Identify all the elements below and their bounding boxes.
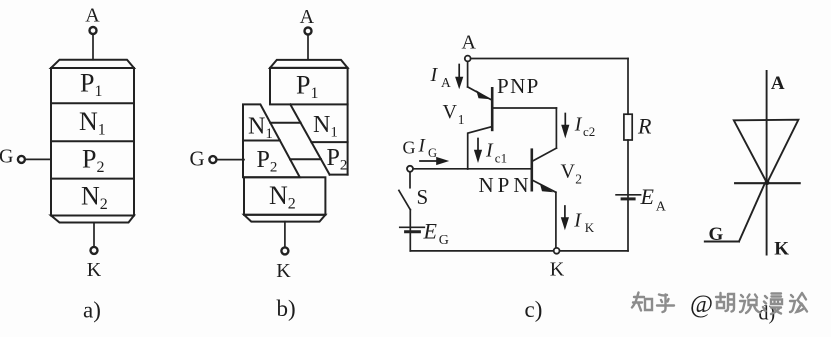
junction dot at apex d: [765, 180, 770, 185]
wire switch drop from G node: [409, 172, 411, 187]
top bevel lid of layer stack a: [51, 60, 134, 68]
node G terminal c: [407, 166, 413, 172]
svg-text:G: G: [190, 146, 205, 170]
wire gate rail G to V2 base: [414, 168, 532, 170]
svg-text:K: K: [585, 220, 595, 235]
wire gate lead a: [25, 158, 51, 160]
watermark char man: [763, 294, 782, 315]
node K terminal b: [281, 247, 288, 254]
svg-text:G: G: [0, 146, 13, 168]
right shared-stack right edge b: [347, 104, 349, 174]
wire V2 emitter to K: [555, 192, 557, 251]
junction line P1/N1 a: [51, 102, 134, 104]
svg-text:I: I: [485, 140, 494, 162]
battery E_A positive plate: [616, 194, 641, 196]
current arrow I_c1: [474, 139, 482, 164]
watermark char shuo: [740, 295, 760, 314]
wire cathode lead a: [93, 223, 95, 247]
watermark char hu2: [716, 293, 734, 312]
svg-text:G: G: [428, 146, 437, 160]
node K terminal a: [91, 247, 98, 254]
wire gate lead b: [217, 159, 244, 161]
shear cut diagonal 2 (left edge of PNP half) b: [290, 104, 329, 174]
wire anode lead a: [92, 34, 94, 60]
current arrow I_K: [561, 206, 569, 230]
svg-text:A: A: [85, 5, 100, 27]
wire cathode lead b: [284, 222, 286, 248]
current arrow I_G: [420, 157, 449, 165]
node G terminal b: [209, 156, 216, 163]
left shared-stack outline (N1/P2 of NPN half) b: [243, 104, 300, 177]
shear band divider upper b: [270, 122, 300, 124]
wire anode-to-cathode axis d: [766, 71, 768, 255]
transistor V2 emitter arrowhead: [540, 183, 553, 192]
transistor V2 emitter wire (NPN arrow out): [532, 180, 556, 192]
N2 block outline b: [244, 177, 325, 215]
svg-text:A: A: [656, 199, 667, 214]
junction line N1/P2 a: [51, 140, 134, 142]
svg-text:E: E: [640, 184, 655, 209]
svg-text:@: @: [690, 291, 713, 318]
junction line N1/P2 left half b: [243, 140, 280, 142]
junction line N1/P2 right half b: [311, 141, 347, 143]
svg-text:K: K: [550, 258, 565, 280]
svg-text:K: K: [276, 260, 291, 282]
wire bottom rail: [410, 250, 628, 252]
switch S blade: [399, 190, 410, 209]
svg-text:G: G: [709, 224, 724, 245]
wire V1 base to V2 collector rail: [492, 107, 556, 109]
node A terminal b: [305, 28, 312, 35]
cathode bar d: [735, 182, 800, 184]
svg-text:G: G: [403, 137, 416, 157]
svg-text:V: V: [561, 161, 576, 183]
watermark char hu: [657, 295, 674, 313]
bottom bevel lid of layer stack a: [51, 216, 134, 223]
bottom bevel lid of N2 block b: [244, 215, 325, 222]
thyristor triangle d: [734, 120, 799, 183]
P1 block outline b: [270, 68, 348, 105]
svg-text:c): c): [525, 297, 543, 322]
wire top rail from A to resistor branch: [471, 58, 628, 60]
svg-text:a): a): [83, 298, 101, 323]
bottom edge of right P2 half b: [330, 174, 348, 176]
svg-text:I: I: [574, 113, 583, 135]
svg-text:I: I: [430, 64, 439, 86]
transistor V2 base bar: [530, 150, 533, 191]
gate lead horizontal d: [705, 241, 739, 243]
svg-text:I: I: [573, 210, 582, 232]
svg-text:1: 1: [458, 112, 465, 127]
watermark char zhi: [632, 293, 652, 311]
node G terminal a: [18, 156, 25, 163]
transistor V1 base bar: [491, 88, 494, 130]
svg-text:A: A: [300, 6, 315, 28]
current arrow I_c2: [561, 114, 569, 139]
junction line P2/N2 a: [51, 178, 134, 180]
transistor V1 emitter arrowhead: [476, 90, 490, 99]
svg-text:2: 2: [575, 172, 582, 187]
transistor V1 emitter wire (PNP arrow into base): [468, 87, 491, 99]
transistor V1 collector wire: [468, 127, 493, 170]
node K terminal c: [554, 248, 560, 254]
layer stack body outline a: [51, 68, 134, 216]
gate lead diagonal d: [739, 185, 764, 242]
svg-text:NPN: NPN: [479, 173, 533, 197]
shear band divider lower b: [290, 158, 321, 160]
svg-text:c2: c2: [583, 124, 595, 139]
battery E_G positive plate: [400, 226, 425, 228]
wire anode lead b: [307, 35, 309, 60]
node A terminal c: [465, 56, 471, 62]
wire resistor to battery E_A: [627, 140, 629, 251]
wire anode drop from A node: [467, 62, 469, 87]
svg-text:PNP: PNP: [497, 74, 540, 98]
battery E_A negative plate: [622, 197, 634, 200]
battery E_G negative plate: [406, 230, 420, 233]
svg-text:A: A: [441, 75, 451, 90]
svg-text:b): b): [277, 296, 296, 321]
svg-text:A: A: [461, 32, 476, 54]
svg-text:K: K: [774, 238, 789, 259]
svg-text:c1: c1: [495, 150, 507, 165]
svg-text:V: V: [443, 101, 458, 123]
current arrow I_A: [455, 65, 463, 90]
transistor V2 collector wire: [532, 148, 557, 161]
svg-text:G: G: [439, 233, 449, 248]
svg-text:S: S: [417, 185, 429, 209]
svg-text:E: E: [423, 219, 438, 244]
node A terminal a: [90, 27, 97, 34]
svg-text:A: A: [771, 73, 785, 94]
svg-text:K: K: [87, 259, 102, 281]
top bevel lid of P1 block b: [270, 60, 348, 68]
wire V2 collector vertical: [555, 108, 557, 148]
resistor R body: [624, 114, 632, 140]
wire switch to battery E_G: [409, 210, 411, 251]
watermark char tan: [790, 293, 807, 312]
wire resistor branch upper: [627, 59, 629, 115]
svg-text:R: R: [637, 114, 652, 139]
